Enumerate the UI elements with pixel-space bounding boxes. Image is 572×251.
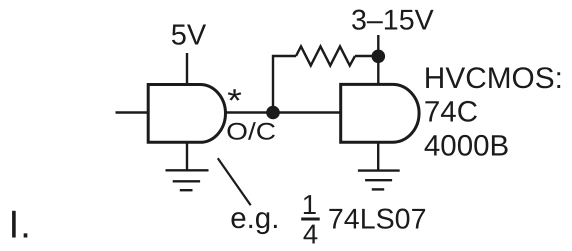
svg-text:4: 4 (303, 218, 318, 249)
svg-text:3–15V: 3–15V (351, 5, 434, 37)
svg-text:4000B: 4000B (424, 129, 509, 162)
svg-text:HVCMOS:: HVCMOS: (424, 62, 563, 95)
svg-text:1: 1 (302, 189, 317, 220)
svg-text:I.: I. (9, 204, 32, 247)
svg-text:e.g.: e.g. (230, 202, 279, 235)
pointer line to e.g. 1/4 74LS07 (218, 158, 251, 205)
wire input stub to U1 (116, 111, 149, 113)
wire U2 ground stub (377, 142, 379, 171)
wire resistor to supply node (355, 55, 372, 57)
svg-text:5V: 5V (171, 19, 207, 51)
buffer U1 (open-collector, left gate) (148, 85, 225, 143)
svg-text:74C: 74C (424, 96, 478, 129)
svg-text:*: * (227, 83, 242, 119)
wire node to U2 input (273, 111, 341, 113)
wire 3-15V stub down to U2 top (377, 35, 379, 85)
svg-text:74LS07: 74LS07 (328, 203, 427, 235)
wire U1 output to node (226, 111, 269, 113)
ground (U2) (358, 171, 400, 190)
wire U1 ground stub (186, 142, 188, 170)
buffer U2 (HV CMOS, right gate) (341, 84, 419, 142)
fraction bar of 1/4 (301, 218, 320, 221)
ground (U1) (166, 170, 209, 190)
wire 5V supply stub (186, 53, 188, 85)
resistor R1 (296, 46, 355, 65)
node A (junction dot) (266, 106, 280, 120)
node B (supply junction dot) (372, 50, 386, 64)
svg-text:O/C: O/C (226, 118, 276, 145)
wire node up to resistor level (273, 56, 296, 110)
